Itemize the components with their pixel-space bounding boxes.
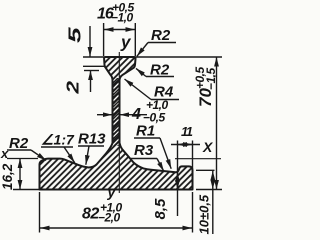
svg-text:R2: R2 [9, 135, 29, 152]
leader R2 base-left [7, 149, 31, 151]
dim 5 arrow (down) [89, 26, 91, 57]
svg-text:2: 2 [63, 80, 82, 94]
X axis right segment [175, 158, 221, 160]
svg-text:−2,0: −2,0 [98, 211, 121, 225]
svg-text:X: X [202, 139, 214, 155]
svg-text:11: 11 [181, 124, 193, 139]
leader R2 top [148, 42, 176, 44]
leader R3 [131, 158, 157, 160]
svg-text:R3: R3 [134, 142, 154, 159]
dim 4 web: left arrow [97, 114, 112, 116]
text 70 +0,5 -1,5 (rotated) [193, 66, 218, 107]
dim 82 dimension line [40, 227, 192, 229]
y axis centerline [118, 52, 120, 193]
dim 82 extension lines [39, 192, 41, 233]
svg-text:R2: R2 [151, 27, 171, 44]
head side line y=66.3 [83, 65, 104, 67]
svg-text:x: x [0, 146, 9, 161]
dim 11 dimension line [171, 144, 200, 146]
svg-text:R13: R13 [78, 131, 106, 148]
svg-text:16,2: 16,2 [0, 163, 15, 190]
svg-text:−1,5: −1,5 [204, 67, 218, 90]
svg-text:∠1:7: ∠1:7 [41, 132, 75, 148]
leader R2 side [146, 76, 174, 78]
dim 70 extension bottom [196, 189, 222, 191]
dim 8,5 arrows [177, 172, 179, 181]
dim 2 arrow (up) [90, 71, 92, 93]
head line y=70.5 [84, 70, 99, 72]
svg-text:10±0,5: 10±0,5 [197, 194, 212, 234]
dim 16 dimension line [104, 29, 135, 31]
leader R4 [151, 99, 179, 101]
svg-text:y: y [120, 33, 132, 52]
slope 1:7 label with leader [41, 146, 73, 148]
dim 10 extension top [196, 169, 215, 171]
denser web hatch overlay [113, 78, 118, 146]
X axis left segment [7, 158, 38, 160]
dim 4 web: right arrow [120, 114, 147, 116]
rail profile cross-section (hatched) [40, 57, 193, 190]
svg-text:5: 5 [64, 26, 84, 43]
head top extension line (long) [83, 56, 222, 58]
svg-text:R1: R1 [136, 123, 155, 140]
svg-text:4: 4 [131, 106, 141, 123]
dim 70 dimension line [216, 57, 218, 190]
dim 16,2 bottom extension [13, 189, 40, 191]
svg-text:R2: R2 [150, 62, 170, 79]
dim 11 extension lines [177, 141, 179, 217]
svg-text:8,5: 8,5 [152, 198, 169, 220]
svg-text:−1,0: −1,0 [111, 11, 134, 25]
dim 16,2 dimension line [19, 159, 21, 190]
svg-text:82: 82 [82, 206, 99, 223]
svg-text:y: y [107, 184, 117, 200]
dim 16 extension lines [103, 23, 105, 56]
leader R13 [78, 145, 104, 147]
leader R1 [134, 137, 160, 139]
dim 10 dimension line (double arrow inside) [212, 171, 214, 181]
